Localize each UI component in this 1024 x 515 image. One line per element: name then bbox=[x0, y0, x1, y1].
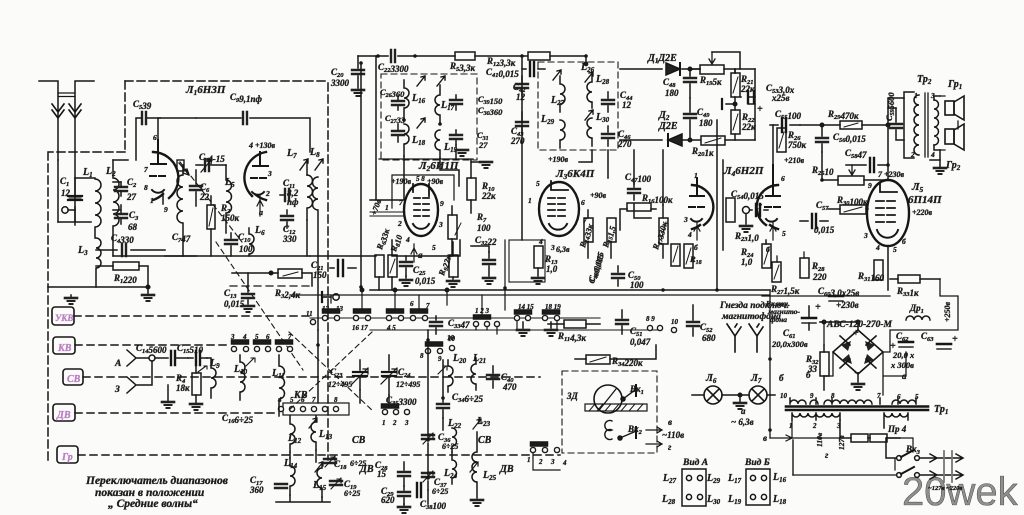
svg-text:С26360: С26360 bbox=[380, 87, 405, 99]
svg-text:R53,3к: R53,3к bbox=[449, 61, 476, 73]
svg-text:КВ: КВ bbox=[57, 343, 72, 354]
svg-text:3: 3 bbox=[683, 215, 688, 224]
svg-text:Тр2: Тр2 bbox=[917, 74, 932, 86]
svg-text:+190в: +190в bbox=[391, 177, 412, 186]
switch row contacts 8 9 10 right bbox=[646, 315, 679, 333]
svg-text:5: 5 bbox=[893, 245, 897, 254]
labels в 110в г bbox=[646, 417, 684, 452]
svg-text:Гр1: Гр1 bbox=[947, 79, 962, 91]
tube Л2 6И1П bbox=[385, 160, 459, 252]
switch row contacts 14 15 18 19 bbox=[514, 303, 561, 336]
transformer Тр2 bbox=[904, 74, 940, 159]
capacitor C54 0,015 bbox=[731, 189, 768, 232]
svg-text:L16: L16 bbox=[772, 472, 787, 484]
choke Др1 bbox=[906, 303, 930, 320]
svg-text:12÷495: 12÷495 bbox=[396, 380, 420, 389]
fuse Пр4 bbox=[840, 420, 907, 442]
svg-text:С595600: С595600 bbox=[884, 92, 896, 121]
svg-text:6: 6 bbox=[410, 300, 414, 308]
svg-text:+230в: +230в bbox=[836, 300, 859, 310]
resistor R19 5к bbox=[690, 52, 755, 87]
resistor R4 18к bbox=[175, 365, 202, 410]
coil L19 bbox=[435, 130, 458, 158]
svg-text:0,015: 0,015 bbox=[415, 276, 436, 286]
capacitor C13 0,015 bbox=[224, 273, 254, 312]
capacitor C2 27 bbox=[113, 177, 137, 202]
resistor R15 1,5 bbox=[600, 218, 618, 258]
capacitor C20 3300 bbox=[330, 56, 364, 96]
svg-text:а: а bbox=[741, 406, 746, 416]
svg-text:L27: L27 bbox=[662, 473, 677, 485]
svg-text:5: 5 bbox=[782, 229, 786, 238]
coil L11 bbox=[271, 355, 285, 407]
svg-text:R31160: R31160 bbox=[857, 271, 885, 283]
svg-text:Д1Д2Е: Д1Д2Е bbox=[647, 53, 677, 65]
svg-text:4: 4 bbox=[538, 237, 543, 246]
svg-text:Переключатель диапазонов: Переключатель диапазонов bbox=[85, 475, 228, 487]
text Включ магнитофона bbox=[765, 299, 800, 324]
tube Л1b triode bbox=[244, 141, 275, 217]
switch wafer КВ row bbox=[230, 333, 293, 352]
svg-text:1: 1 bbox=[528, 196, 532, 205]
svg-text:а: а bbox=[418, 250, 423, 260]
capacitor C25 0,015 bbox=[400, 256, 436, 286]
capacitor C52 680 bbox=[687, 305, 716, 343]
svg-text:+: + bbox=[815, 302, 821, 313]
wire switch row2 bbox=[370, 329, 660, 331]
svg-text:С346÷25: С346÷25 bbox=[452, 392, 483, 404]
svg-text:С540,015: С540,015 bbox=[731, 189, 764, 201]
svg-text:12: 12 bbox=[622, 100, 632, 110]
capacitor C19 6-25 bbox=[330, 478, 360, 498]
svg-text:С145600: С145600 bbox=[136, 343, 167, 355]
svg-text:0,047: 0,047 bbox=[630, 337, 651, 347]
svg-text:ДВ: ДВ bbox=[56, 410, 71, 421]
svg-text:С410,015: С410,015 bbox=[486, 67, 519, 79]
svg-text:R29470к: R29470к bbox=[827, 109, 859, 121]
resistor R30 100к bbox=[828, 195, 868, 214]
coil L21 bbox=[471, 353, 486, 390]
speaker Гр2 bbox=[945, 124, 964, 172]
svg-text:2: 2 bbox=[538, 458, 543, 466]
svg-text:г: г bbox=[825, 450, 829, 460]
svg-text:4: 4 bbox=[277, 396, 282, 404]
svg-text:L15: L15 bbox=[312, 480, 327, 492]
switch contacts 1 2 3 bbox=[382, 404, 410, 427]
band button ДВ bbox=[53, 404, 75, 421]
svg-text:Др1: Др1 bbox=[909, 303, 924, 315]
svg-text:„ Средние волны“: „ Средние волны“ bbox=[108, 498, 198, 510]
svg-text:С450,015: С450,015 bbox=[586, 251, 606, 285]
svg-text:9: 9 bbox=[438, 355, 442, 363]
node bus junction bbox=[146, 285, 150, 289]
capacitor C63 bbox=[921, 331, 958, 349]
capacitor C56 0,015 bbox=[816, 123, 866, 152]
svg-text:С38100: С38100 bbox=[420, 499, 447, 511]
dash row Гр bbox=[78, 454, 560, 456]
coil L12 bbox=[287, 416, 302, 452]
svg-text:4: 4 bbox=[562, 459, 567, 467]
svg-text:68: 68 bbox=[128, 222, 138, 232]
svg-text:3: 3 bbox=[438, 220, 443, 229]
svg-text:R810: R810 bbox=[388, 233, 404, 254]
capacitor C17 360 bbox=[249, 475, 287, 495]
resistor R27 1,5к bbox=[770, 262, 800, 296]
tube Л4b triode bbox=[757, 165, 786, 254]
svg-text:L29: L29 bbox=[706, 473, 721, 485]
svg-text:Пр 4: Пр 4 bbox=[887, 424, 907, 434]
svg-text:Вид Б: Вид Б bbox=[744, 457, 770, 468]
svg-text:4: 4 bbox=[687, 230, 692, 239]
resistor R21 22к bbox=[731, 69, 755, 104]
svg-text:27: 27 bbox=[126, 192, 137, 202]
capacitor C6 22 bbox=[190, 170, 210, 206]
wire IF bottom bus bbox=[522, 56, 663, 240]
svg-text:фона: фона bbox=[770, 315, 787, 324]
coil L2 bbox=[105, 160, 128, 256]
svg-text:9: 9 bbox=[440, 199, 444, 208]
svg-text:С47100: С47100 bbox=[625, 172, 652, 184]
resistor R17 330к bbox=[650, 205, 669, 258]
svg-text:С560,015: С560,015 bbox=[833, 132, 866, 144]
switch row1 contacts left bbox=[306, 309, 340, 325]
svg-text:+220в: +220в bbox=[912, 208, 933, 217]
svg-text:100: 100 bbox=[477, 223, 491, 233]
svg-text:1: 1 bbox=[527, 456, 531, 464]
svg-text:С55100: С55100 bbox=[775, 109, 802, 121]
diode D2 bbox=[620, 110, 700, 146]
svg-text:б: б bbox=[694, 243, 698, 252]
band button Гр bbox=[57, 446, 78, 463]
resistor R22 22к bbox=[731, 104, 756, 140]
capacitor C51 0,047 bbox=[616, 310, 651, 347]
resistor R7 100 bbox=[448, 206, 491, 256]
svg-text:L17: L17 bbox=[727, 473, 742, 485]
svg-text:СВ: СВ bbox=[478, 435, 492, 446]
svg-text:8: 8 bbox=[334, 396, 338, 404]
wire detector verticals bbox=[735, 69, 755, 140]
coil L8 bbox=[309, 147, 323, 256]
capacitor C38 100 bbox=[417, 483, 447, 511]
svg-text:10: 10 bbox=[671, 318, 679, 326]
tube Л3 6К4П bbox=[528, 168, 607, 252]
capacitor C1 12 bbox=[58, 176, 91, 222]
svg-text:L2: L2 bbox=[105, 166, 116, 178]
svg-text:С747: С747 bbox=[172, 232, 191, 244]
svg-text:L1: L1 bbox=[82, 167, 93, 179]
resistor R2 150к bbox=[207, 196, 240, 256]
coil L27 bbox=[550, 70, 565, 112]
svg-text:б: б bbox=[779, 373, 784, 383]
resistor R26 750к bbox=[777, 128, 807, 152]
resistor R13 1,0 bbox=[509, 240, 558, 284]
svg-text:8 9: 8 9 bbox=[646, 315, 655, 323]
svg-text:3: 3 bbox=[550, 243, 555, 252]
wire switch row1 bbox=[310, 317, 600, 319]
svg-text:СВ: СВ bbox=[352, 435, 366, 446]
svg-text:620: 620 bbox=[381, 495, 395, 505]
wire Л5 anode bbox=[887, 125, 889, 290]
dash row ДВ bbox=[75, 412, 276, 414]
svg-text:6: 6 bbox=[153, 133, 157, 142]
resistor R11 4,3к bbox=[548, 320, 600, 343]
coil L16 bbox=[404, 76, 426, 118]
svg-text:150к: 150к bbox=[221, 213, 240, 223]
lamp Л6 bbox=[692, 373, 740, 404]
svg-text:0,015: 0,015 bbox=[224, 299, 245, 309]
capacitor C26 360 bbox=[380, 87, 405, 110]
coil L30 bbox=[585, 110, 610, 146]
resistor R6 vertical bbox=[374, 227, 392, 290]
wire IF can verticals bbox=[370, 152, 459, 200]
capacitor C5 39 bbox=[133, 99, 160, 160]
svg-text:R18: R18 bbox=[689, 254, 702, 266]
svg-text:Вид А: Вид А bbox=[682, 457, 708, 468]
svg-text:в: в bbox=[668, 417, 672, 427]
capacitor C50 100 bbox=[612, 266, 644, 290]
IF can 2 dashed box bbox=[538, 62, 618, 150]
label ~6,3в а bbox=[731, 406, 754, 427]
variable capacitor C24 bbox=[381, 355, 420, 395]
switch wafer ДВ row bbox=[277, 396, 349, 415]
wire bus mid2 bbox=[290, 294, 770, 296]
wire chassis bus bbox=[48, 286, 148, 288]
capacitor C28 15 bbox=[375, 460, 410, 486]
svg-text:б: б bbox=[902, 237, 906, 246]
svg-text:Тр1: Тр1 bbox=[934, 404, 948, 416]
coil L17 bbox=[435, 76, 455, 122]
capacitor C62 bbox=[890, 331, 915, 370]
svg-text:L8: L8 bbox=[309, 147, 320, 159]
coil L1 bbox=[58, 160, 101, 238]
svg-text:1: 1 bbox=[382, 419, 386, 427]
ground lamps bbox=[734, 393, 746, 409]
ground L25 bbox=[471, 500, 483, 506]
svg-text:22к: 22к bbox=[741, 122, 756, 132]
tube Л4a triode bbox=[683, 171, 713, 252]
svg-text:+250в: +250в bbox=[943, 301, 952, 322]
capacitor C36 6-25 bbox=[422, 432, 458, 451]
svg-text:1 2 3: 1 2 3 bbox=[475, 307, 490, 315]
resistor vertical pair below Л4 bbox=[684, 244, 693, 268]
resistor R3 2,4к bbox=[232, 269, 312, 300]
svg-text:1: 1 bbox=[694, 171, 698, 180]
svg-text:Д2Е: Д2Е bbox=[658, 121, 678, 132]
svg-text:6: 6 bbox=[581, 198, 585, 207]
svg-text:5: 5 bbox=[290, 396, 294, 404]
capacitor C9 9,1пф bbox=[196, 92, 310, 152]
svg-text:6÷25: 6÷25 bbox=[344, 489, 360, 498]
svg-text:С30360: С30360 bbox=[478, 105, 503, 117]
svg-text:+190в: +190в bbox=[548, 155, 569, 164]
svg-text:С57: С57 bbox=[816, 200, 829, 212]
svg-text:г: г bbox=[668, 442, 672, 452]
svg-text:СВ: СВ bbox=[67, 374, 81, 385]
tube Л1a triode bbox=[144, 84, 226, 214]
wire R16 row bbox=[620, 209, 627, 230]
gang dash lines bbox=[287, 332, 374, 412]
resistor R31 160 bbox=[857, 260, 885, 283]
svg-text:L6: L6 bbox=[254, 225, 265, 237]
coil L26 bbox=[580, 56, 595, 74]
svg-text:С99,1пф: С99,1пф bbox=[230, 92, 263, 104]
svg-text:L17: L17 bbox=[440, 100, 455, 112]
svg-text:18к: 18к bbox=[176, 383, 190, 393]
svg-text:С2: С2 bbox=[127, 177, 137, 189]
svg-text:~110в: ~110в bbox=[662, 430, 684, 440]
capacitor C33 47 bbox=[430, 316, 470, 334]
wire Л2 top rail bbox=[379, 158, 473, 160]
resistor R14 33к bbox=[577, 210, 595, 258]
pinview box A bbox=[661, 469, 721, 506]
band button УКВ bbox=[52, 307, 74, 325]
switch Вк2 bbox=[605, 421, 643, 441]
svg-text:9: 9 bbox=[810, 392, 814, 400]
dash boundary switch bbox=[230, 285, 312, 287]
svg-text:С3: С3 bbox=[129, 210, 139, 222]
svg-text:27: 27 bbox=[478, 140, 488, 150]
capacitor C43 270 bbox=[510, 112, 528, 146]
svg-text:+: + bbox=[757, 104, 763, 115]
svg-text:Гр2: Гр2 bbox=[945, 160, 961, 172]
node risers bbox=[360, 288, 363, 291]
svg-text:L28: L28 bbox=[661, 494, 676, 506]
svg-text:3: 3 bbox=[267, 169, 272, 178]
svg-text:1,0: 1,0 bbox=[741, 257, 753, 267]
svg-text:4: 4 bbox=[875, 243, 880, 252]
switch contact 12 13 bbox=[322, 292, 344, 313]
svg-text:4: 4 bbox=[242, 333, 247, 341]
svg-text:L21: L21 bbox=[472, 353, 486, 365]
svg-text:2: 2 bbox=[265, 189, 270, 198]
svg-text:З: З bbox=[114, 385, 120, 395]
svg-text:Гр: Гр bbox=[61, 452, 73, 463]
resistor R25 10 bbox=[811, 152, 888, 185]
switch contacts bottom mid bbox=[527, 442, 567, 470]
dash row КВ bbox=[75, 344, 230, 346]
coil L10 with trimmer bbox=[233, 355, 255, 400]
svg-text:ЗД: ЗД bbox=[566, 391, 579, 401]
svg-text:Л36К4П: Л36К4П bbox=[555, 168, 595, 181]
svg-text:2: 2 bbox=[392, 419, 397, 427]
capacitor C40 470 bbox=[487, 366, 517, 392]
switch Вк1 bbox=[621, 384, 644, 401]
capacitor C27 33 bbox=[385, 113, 406, 142]
svg-text:7: 7 bbox=[312, 396, 316, 404]
motor circle bbox=[594, 385, 622, 413]
wire bottom row ukv bbox=[165, 255, 310, 257]
svg-text:−: − bbox=[854, 368, 860, 379]
svg-text:6,3в: 6,3в bbox=[556, 245, 570, 254]
capacitor C41 0,015 bbox=[486, 62, 545, 79]
svg-text:R114,3к: R114,3к bbox=[557, 331, 586, 343]
resistor R1 220 bbox=[96, 262, 148, 287]
resistor R16 100к bbox=[627, 193, 673, 211]
svg-text:180: 180 bbox=[665, 88, 679, 98]
antenna bbox=[39, 81, 94, 225]
capacitor C32 22 bbox=[471, 235, 497, 284]
resistor R18 bbox=[671, 244, 702, 266]
svg-text:6: 6 bbox=[781, 174, 785, 183]
svg-text:1: 1 bbox=[150, 196, 154, 205]
input З bbox=[114, 361, 152, 395]
svg-text:х25в: х25в bbox=[771, 93, 790, 103]
wire psu risers bbox=[770, 252, 824, 438]
capacitor C58 47 bbox=[845, 148, 888, 172]
dash row СВ bbox=[83, 376, 540, 378]
wire speakers bbox=[940, 96, 958, 150]
capacitor C31 27 bbox=[450, 130, 489, 156]
capacitor C16 6-25 bbox=[222, 413, 253, 425]
resistor R24 1,0 bbox=[740, 240, 771, 268]
IF can 1 dashed box bbox=[381, 74, 477, 160]
coil L28 bbox=[585, 72, 610, 108]
capacitor C29 620 bbox=[381, 486, 410, 505]
svg-text:L19: L19 bbox=[727, 494, 742, 506]
svg-text:750к: 750к bbox=[788, 140, 807, 150]
svg-text:+210в: +210в bbox=[784, 156, 805, 165]
svg-text:5: 5 bbox=[536, 179, 540, 188]
dashed shield boundary УКВ unit bbox=[125, 80, 328, 82]
wire anode row bbox=[158, 118, 196, 140]
svg-text:~127в ~220в: ~127в ~220в bbox=[928, 485, 962, 492]
svg-text:L13: L13 bbox=[318, 429, 333, 441]
svg-text:7: 7 bbox=[144, 165, 148, 174]
coil L9 bbox=[198, 358, 220, 398]
svg-text:8: 8 bbox=[420, 352, 424, 360]
svg-text:3: 3 bbox=[550, 458, 555, 466]
resistor R28 220 bbox=[800, 258, 827, 282]
svg-text:Л46Н2П: Л46Н2П bbox=[723, 165, 764, 178]
capacitor C55 100 bbox=[770, 109, 802, 132]
plug pins bbox=[920, 451, 963, 492]
svg-text:R32,4к: R32,4к bbox=[274, 288, 301, 300]
diode D1 bbox=[620, 53, 700, 75]
svg-text:~ 6,3в: ~ 6,3в bbox=[731, 417, 754, 427]
capacitor C22 3300 bbox=[378, 50, 409, 74]
svg-text:7 +230в: 7 +230в bbox=[878, 170, 905, 179]
svg-text:С63: С63 bbox=[921, 331, 934, 343]
svg-text:R1220: R1220 bbox=[113, 273, 137, 285]
svg-text:20,0х300в: 20,0х300в bbox=[771, 339, 808, 349]
svg-text:L3: L3 bbox=[77, 245, 88, 257]
svg-text:С18: С18 bbox=[334, 459, 347, 471]
wire heater row bbox=[310, 240, 460, 256]
capacitor C4 330 bbox=[96, 233, 165, 256]
node junction dots bbox=[316, 54, 890, 480]
switch contacts 8 9 10 bbox=[420, 335, 456, 363]
svg-text:R201к: R201к bbox=[691, 146, 714, 158]
svg-text:+90в: +90в bbox=[590, 191, 607, 200]
svg-text:R231,0: R231,0 bbox=[734, 231, 759, 243]
svg-text:12: 12 bbox=[516, 92, 526, 102]
band button КВ bbox=[53, 337, 75, 354]
svg-text:L7: L7 bbox=[286, 148, 297, 160]
coil L15 bbox=[312, 462, 327, 497]
dash row УКВ bbox=[74, 315, 310, 317]
svg-text:УКВ: УКВ bbox=[55, 313, 73, 323]
capacitor C44 12 bbox=[602, 90, 633, 112]
svg-text:ДВ: ДВ bbox=[499, 464, 514, 475]
coil L6 bbox=[249, 225, 265, 256]
label в arrow bbox=[763, 433, 792, 443]
capacitor C11 8,2пф bbox=[280, 178, 299, 207]
wire a arrow Л2 bbox=[411, 244, 423, 262]
wire Л2 grid row bbox=[370, 212, 404, 216]
capacitor C57 0,015 bbox=[800, 200, 835, 235]
svg-text:С223300: С223300 bbox=[378, 62, 409, 74]
svg-text:22к: 22к bbox=[481, 191, 496, 201]
